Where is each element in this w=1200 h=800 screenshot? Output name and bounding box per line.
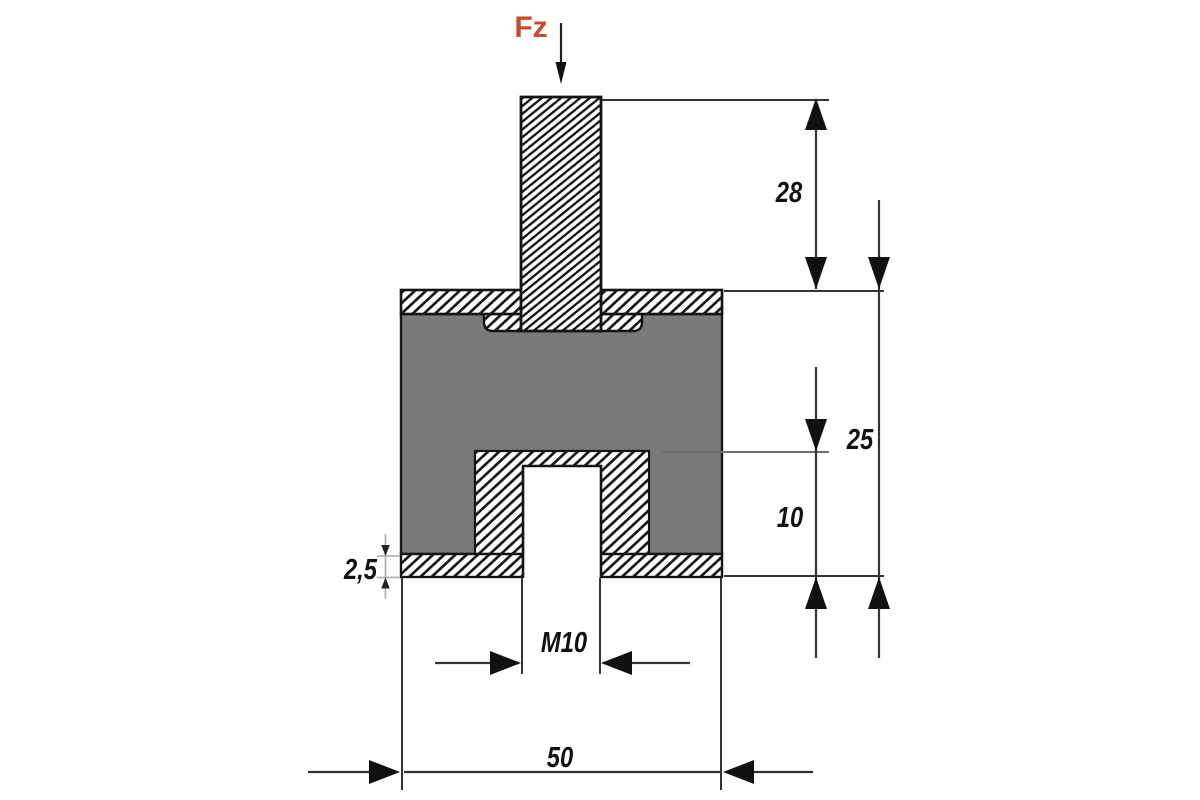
dimension 10 line xyxy=(815,367,817,658)
dimension 50 xyxy=(404,771,720,773)
bottom plate xyxy=(401,554,722,577)
svg-text:2,5: 2,5 xyxy=(343,553,378,586)
dimension 2,5 xyxy=(385,534,387,599)
washer under top plate xyxy=(484,314,642,331)
threaded stud xyxy=(521,97,601,331)
svg-text:Fz: Fz xyxy=(514,11,547,44)
svg-text:M10: M10 xyxy=(541,626,587,659)
svg-text:10: 10 xyxy=(777,501,804,534)
threaded hole M10 (white) xyxy=(523,466,601,580)
svg-text:50: 50 xyxy=(547,741,574,774)
svg-text:28: 28 xyxy=(775,176,803,209)
rubber body (grey) xyxy=(401,314,722,554)
threaded insert block xyxy=(475,451,649,554)
dimension 25 line xyxy=(878,200,880,658)
Fz force arrow xyxy=(560,23,562,66)
extension line hole left xyxy=(521,578,523,674)
leader line hole top xyxy=(662,451,829,453)
extension line body right xyxy=(720,578,722,790)
top plate xyxy=(401,290,722,314)
extension line body top xyxy=(724,290,884,292)
extension line body bottom xyxy=(724,575,884,577)
svg-text:25: 25 xyxy=(846,423,874,456)
extension line body left xyxy=(401,578,403,790)
extension line hole right xyxy=(599,578,601,674)
extension line stud top xyxy=(602,99,829,101)
dimension M10 xyxy=(435,662,519,664)
dimension 28 line xyxy=(815,100,817,289)
